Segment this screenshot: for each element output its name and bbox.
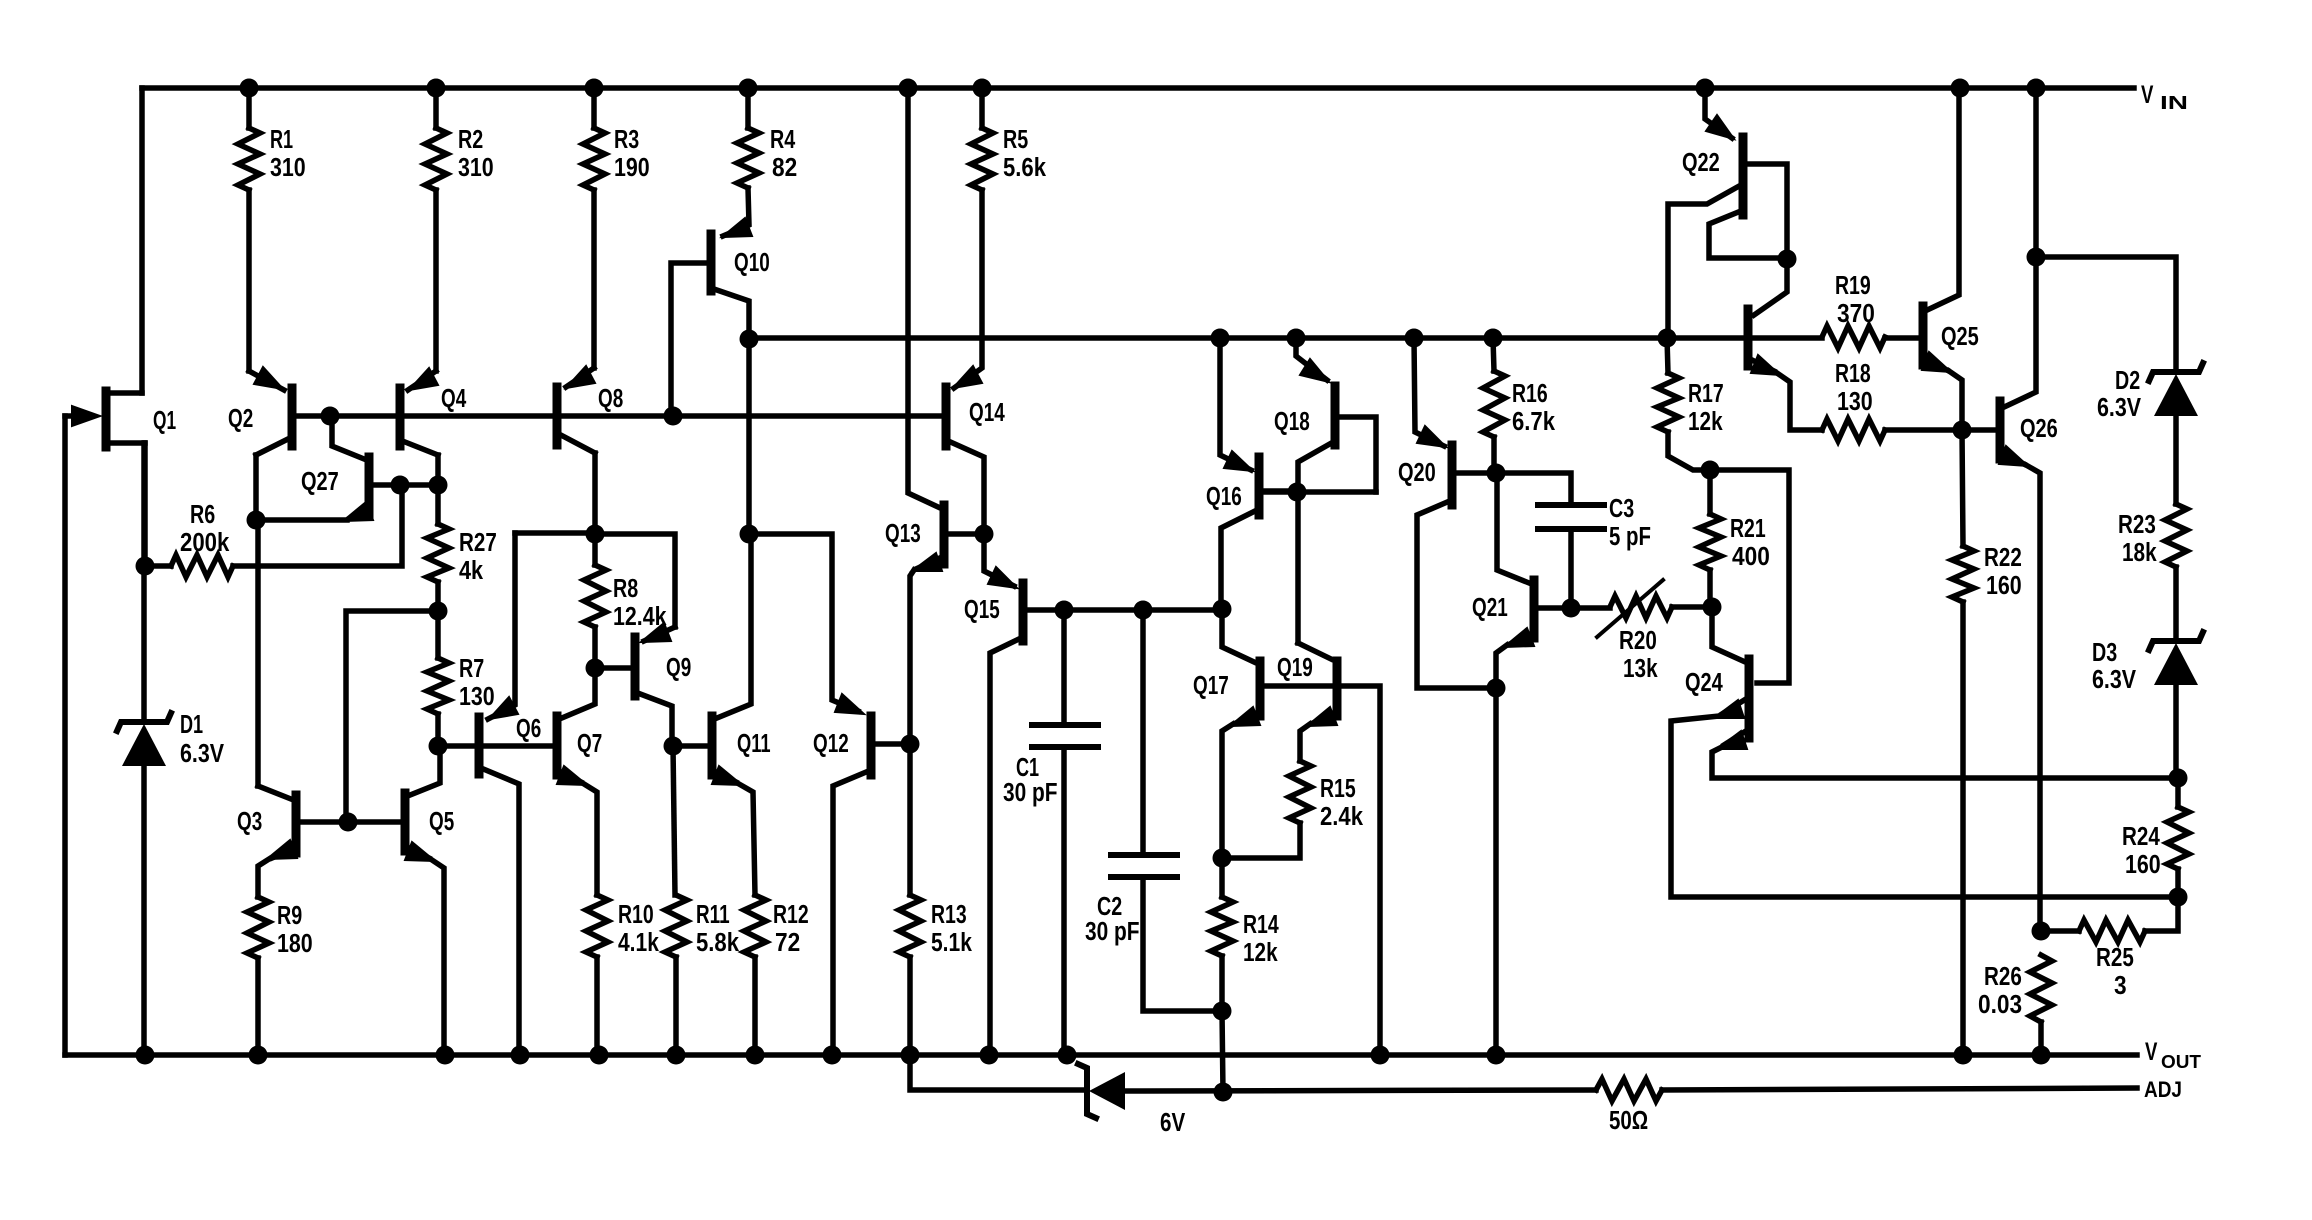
wire R27 node to Q3-Q5 base	[346, 611, 438, 822]
svg-text:Q2: Q2	[228, 405, 253, 433]
resistor R14 12k	[1211, 897, 1233, 956]
node Q10 emitter junction	[740, 330, 759, 349]
transistor Q4	[396, 388, 405, 446]
svg-text:130: 130	[1837, 388, 1873, 416]
transistor Q20	[1448, 445, 1457, 505]
node Q2-Q27-Q3 junction	[247, 511, 266, 530]
transistor Q2	[288, 388, 297, 446]
wire Q3 collector up	[255, 522, 261, 786]
svg-text:V: V	[2141, 81, 2154, 109]
wire R20 left lead	[1571, 605, 1610, 611]
svg-text:Q4: Q4	[441, 385, 467, 413]
svg-text:R3: R3	[614, 126, 639, 154]
wire R3 to Q8 emitter	[591, 190, 597, 368]
wire VIN rail left drop to Q1 drain	[139, 88, 145, 393]
resistor R6 200k	[171, 555, 233, 577]
resistor R13 5.1k	[899, 895, 921, 957]
resistor R23 18k	[2165, 504, 2187, 567]
node D2 branch junction	[2027, 248, 2046, 267]
node C2 bottom junction	[1213, 1002, 1232, 1021]
svg-text:ADJ: ADJ	[2144, 1077, 2182, 1102]
capacitor C3 5pF	[1538, 502, 1604, 508]
svg-text:Q5: Q5	[429, 808, 454, 836]
svg-text:C1: C1	[1016, 754, 1039, 782]
transistor Q13	[940, 505, 949, 564]
wire VIN top rail	[142, 85, 2134, 91]
transistor Q16	[1255, 457, 1264, 515]
svg-text:3: 3	[2114, 972, 2127, 1000]
transistor Q18	[1331, 386, 1340, 445]
node base rail dot B	[664, 407, 683, 426]
wire R20 slash	[1597, 580, 1663, 637]
svg-text:C3: C3	[1609, 495, 1634, 523]
resistor R20 13k	[1610, 596, 1672, 618]
transistor Q23	[1744, 309, 1753, 366]
svg-text:Q11: Q11	[737, 730, 771, 758]
svg-text:R20: R20	[1619, 627, 1657, 655]
svg-text:Q20: Q20	[1398, 459, 1436, 487]
svg-text:D2: D2	[2115, 367, 2140, 395]
svg-text:Q13: Q13	[885, 520, 921, 548]
transistor Q3	[292, 795, 301, 853]
svg-text:R17: R17	[1688, 380, 1724, 408]
svg-text:Q14: Q14	[969, 399, 1005, 427]
svg-text:R21: R21	[1730, 515, 1766, 543]
node Q21 emitter junction	[1487, 679, 1506, 698]
svg-text:5.8k: 5.8k	[696, 929, 740, 957]
svg-text:IN: IN	[2160, 93, 2188, 113]
node R21 top junction	[1701, 461, 1720, 480]
svg-text:OUT: OUT	[2161, 1052, 2201, 1072]
svg-text:5.1k: 5.1k	[931, 929, 973, 957]
resistor R24 160	[2167, 807, 2189, 869]
svg-text:R9: R9	[277, 902, 302, 930]
wire Q11 base line	[673, 743, 708, 749]
resistor R2	[433, 88, 439, 128]
svg-text:18k: 18k	[2122, 539, 2157, 567]
svg-text:180: 180	[277, 930, 313, 958]
svg-text:310: 310	[270, 154, 306, 182]
svg-text:Q1: Q1	[153, 407, 176, 435]
svg-text:370: 370	[1837, 300, 1875, 328]
node R24 bottom junction	[2169, 888, 2188, 907]
wire node to ADJ	[1222, 1011, 1223, 1092]
svg-text:Q9: Q9	[666, 654, 691, 682]
wire Q19 collector up	[1295, 492, 1301, 643]
svg-text:Q25: Q25	[1941, 323, 1979, 351]
resistor R22 160	[1952, 546, 1974, 602]
transistor Q12	[867, 716, 876, 775]
wire R17 bottom jog	[1668, 432, 1710, 470]
wire Q13 collector from VIN	[908, 88, 938, 507]
wire x749 down from Q10 node	[746, 339, 752, 534]
node R6 left junction	[136, 557, 155, 576]
svg-text:R1: R1	[270, 126, 293, 154]
resistor R11 5.8k	[665, 895, 687, 957]
node R26 top junction	[2032, 922, 2051, 941]
resistor R9 180	[247, 897, 269, 958]
svg-text:R15: R15	[1320, 775, 1356, 803]
svg-text:R24: R24	[2122, 823, 2160, 851]
node Q27 base dot2	[429, 476, 448, 495]
resistor R3	[591, 88, 597, 128]
svg-text:Q3: Q3	[237, 808, 262, 836]
resistor R26 0.03	[2030, 955, 2052, 1022]
wire Q3-Q5 base line	[300, 819, 401, 825]
svg-text:310: 310	[458, 154, 494, 182]
node Q27 base dot1	[391, 476, 410, 495]
svg-text:Q7: Q7	[577, 730, 602, 758]
wire D2 to R23	[2173, 417, 2179, 504]
svg-text:6V: 6V	[1160, 1109, 1185, 1137]
svg-text:Q19: Q19	[1277, 654, 1313, 682]
svg-text:R8: R8	[613, 575, 638, 603]
svg-text:Q15: Q15	[964, 596, 1000, 624]
svg-text:R16: R16	[1512, 380, 1548, 408]
capacitor C1 30pF	[1061, 610, 1067, 725]
diode D3 zener 6.3V	[2149, 632, 2203, 650]
wire R18 right lead	[1885, 427, 1960, 433]
svg-text:6.3V: 6.3V	[180, 740, 224, 768]
node Q16 collector junction	[1213, 600, 1232, 619]
svg-text:2.4k: 2.4k	[1320, 803, 1364, 831]
wire ADJ line left of zener	[910, 1055, 1084, 1090]
svg-text:400: 400	[1732, 543, 1770, 571]
node rail y338 dots	[1211, 329, 1230, 348]
svg-text:160: 160	[2125, 851, 2161, 879]
resistor R16 6.7k	[1483, 371, 1505, 437]
svg-text:6.3V: 6.3V	[2097, 394, 2141, 422]
svg-text:Q17: Q17	[1193, 672, 1229, 700]
transistor Q11	[708, 716, 717, 775]
node ADJ junction dot	[1214, 1083, 1233, 1102]
transistor Q17	[1256, 661, 1265, 716]
transistor Q14	[942, 387, 951, 446]
node Q25 emitter junction	[1953, 421, 1972, 440]
resistor R1	[246, 88, 252, 128]
svg-text:Q18: Q18	[1274, 408, 1310, 436]
resistor R7 130	[427, 658, 449, 714]
svg-text:R25: R25	[2096, 944, 2134, 972]
transistor Q10	[707, 234, 716, 291]
wire R24 to R25	[2145, 897, 2178, 931]
resistor R10 4.1k	[586, 895, 608, 957]
transistor Q5	[401, 793, 410, 851]
wire Q6-Q7 base line	[438, 743, 553, 749]
svg-text:R18: R18	[1835, 360, 1871, 388]
svg-text:Q27: Q27	[301, 468, 339, 496]
resistor R25 3	[2079, 920, 2145, 942]
svg-text:6.7k: 6.7k	[1512, 408, 1556, 436]
wire Q21 emitter to VOUT	[1493, 688, 1499, 1055]
resistor R8 12.4k	[584, 565, 606, 627]
resistor R19 370	[1822, 326, 1885, 348]
svg-text:50Ω: 50Ω	[1609, 1107, 1648, 1135]
transistor Q6	[475, 717, 484, 774]
wire Q20 base to C3	[1496, 473, 1571, 505]
svg-text:30 pF: 30 pF	[1003, 779, 1058, 807]
transistor Q22	[1739, 137, 1748, 215]
wire R1 to Q2 emitter	[246, 190, 252, 371]
wire Q17-Q19 base line	[1264, 686, 1380, 1055]
wire R5 to Q14 emitter	[954, 190, 982, 388]
svg-text:Q21: Q21	[1472, 594, 1508, 622]
svg-text:Q8: Q8	[598, 385, 623, 413]
wire ADJ line right	[1662, 1088, 2137, 1090]
node C3 bottom junction	[1562, 599, 1581, 618]
svg-text:R14: R14	[1243, 911, 1279, 939]
svg-text:R10: R10	[618, 901, 654, 929]
svg-text:82: 82	[772, 154, 797, 182]
svg-text:D3: D3	[2092, 639, 2117, 667]
transistor Q7	[553, 716, 562, 775]
resistor R15 2.4k	[1289, 761, 1311, 823]
svg-text:R12: R12	[773, 901, 809, 929]
wire Q1 source down	[142, 443, 148, 566]
svg-text:R13: R13	[931, 901, 967, 929]
wire Q4 collector to R27	[435, 455, 441, 485]
svg-text:Q24: Q24	[1685, 669, 1723, 697]
wire long rail y338	[749, 335, 1822, 341]
wire R4 to Q10 emitter	[723, 188, 749, 236]
svg-text:R11: R11	[696, 901, 730, 929]
wire R20 right lead	[1672, 604, 1710, 610]
transistor Q26	[1996, 401, 2005, 459]
transistor Q24	[1745, 659, 1754, 738]
resistor R17 12k	[1657, 373, 1679, 432]
wire Q8 collector down	[592, 453, 598, 534]
resistor R12 72	[744, 895, 766, 957]
node Q15 base dots	[1055, 601, 1074, 620]
wire R25 left lead	[2041, 928, 2079, 934]
svg-text:4.1k: 4.1k	[618, 929, 660, 957]
node Q18 junction	[1288, 483, 1307, 502]
diode D2 zener 6.3V	[2149, 363, 2203, 381]
resistor R27 4k	[427, 524, 449, 582]
diode D1 zener	[117, 713, 171, 731]
transistor Q8	[553, 387, 562, 445]
svg-text:12k: 12k	[1243, 939, 1278, 967]
wire R6 left lead	[145, 563, 171, 569]
node R7 bottom junction	[429, 737, 448, 756]
svg-text:72: 72	[775, 929, 800, 957]
svg-text:4k: 4k	[459, 557, 484, 585]
transistor Q19	[1333, 661, 1342, 716]
node R27 bottom junction	[429, 602, 448, 621]
svg-text:R19: R19	[1835, 272, 1871, 300]
node R14 top junction	[1213, 849, 1232, 868]
node Q12 base junction	[901, 735, 920, 754]
node VOUT rail junction dots	[136, 1046, 155, 1065]
wire Q1 gate feedback left vertical	[62, 416, 68, 1055]
svg-text:130: 130	[459, 683, 495, 711]
svg-text:Q12: Q12	[813, 730, 849, 758]
wire base rail Q2-Q4-Q8-Q14	[294, 413, 942, 419]
wire ADJ line middle	[1127, 1090, 1596, 1091]
svg-text:13k: 13k	[1623, 655, 1658, 683]
svg-text:Q6: Q6	[516, 715, 541, 743]
svg-text:R2: R2	[458, 126, 483, 154]
capacitor C2 30pF	[1140, 610, 1146, 855]
transistor Q15	[1019, 583, 1028, 641]
svg-text:R27: R27	[459, 529, 497, 557]
node Q3-Q5 base dot	[339, 813, 358, 832]
svg-text:Q16: Q16	[1206, 483, 1242, 511]
wire D3 to node	[2173, 686, 2179, 778]
svg-text:30 pF: 30 pF	[1085, 918, 1140, 946]
svg-text:190: 190	[614, 154, 650, 182]
svg-text:5 pF: 5 pF	[1609, 523, 1651, 551]
svg-text:R5: R5	[1003, 126, 1028, 154]
node x749 junction y534	[740, 525, 759, 544]
transistor Q27	[365, 457, 374, 515]
wire R6 to Q27 base node	[233, 485, 402, 566]
transistor Q1	[102, 391, 111, 447]
svg-text:C2: C2	[1097, 893, 1122, 921]
svg-text:6.3V: 6.3V	[2092, 666, 2136, 694]
wire R2 to Q4 emitter	[433, 190, 439, 371]
node R8 bottom junction	[586, 659, 605, 678]
wire node to Q24 base	[1710, 470, 1789, 683]
zener 6V on ADJ line	[1078, 1064, 1096, 1118]
node VIN rail junction dots	[240, 79, 259, 98]
svg-text:5.6k: 5.6k	[1003, 154, 1047, 182]
wire rail y338 right of R19	[1885, 335, 1919, 341]
node Q22 collector junction	[1778, 250, 1797, 269]
wire Q16-Q18 base line	[1264, 489, 1376, 495]
transistor Q21	[1530, 580, 1539, 638]
transistor Q25	[1919, 306, 1928, 365]
wire horizontal y533	[515, 530, 595, 536]
wire Q2 collector down to node	[253, 455, 259, 520]
svg-text:Q26: Q26	[2020, 415, 2058, 443]
node Q14 collector junction	[975, 525, 994, 544]
transistor Q9	[631, 637, 640, 696]
node R8 top junction	[586, 525, 605, 544]
svg-text:R6: R6	[190, 501, 215, 529]
resistor 50ohm on ADJ line	[1596, 1079, 1662, 1101]
wire R23 to D3	[2173, 567, 2179, 641]
node Q9 collector junction	[664, 737, 683, 756]
resistor R18 130	[1822, 419, 1885, 441]
resistor R21 400	[1699, 514, 1721, 570]
node base rail dot A	[321, 407, 340, 426]
svg-text:R23: R23	[2118, 511, 2156, 539]
svg-text:0.03: 0.03	[1978, 991, 2022, 1019]
wire node749 to Q12 emitter	[749, 534, 858, 711]
svg-text:160: 160	[1986, 572, 2022, 600]
svg-text:12k: 12k	[1688, 408, 1723, 436]
wire VIN to D2	[2036, 257, 2176, 372]
svg-text:V: V	[2145, 1038, 2158, 1066]
svg-text:200k: 200k	[180, 529, 230, 557]
svg-text:R26: R26	[1984, 963, 2022, 991]
node R24 top junction	[2169, 769, 2188, 788]
node Q20 base junction	[1487, 464, 1506, 483]
resistor R5	[979, 88, 985, 128]
svg-text:Q10: Q10	[734, 249, 770, 277]
resistor R4	[745, 88, 751, 128]
svg-text:R22: R22	[1984, 544, 2022, 572]
svg-text:R7: R7	[459, 655, 484, 683]
svg-text:D1: D1	[180, 711, 203, 739]
svg-text:Q22: Q22	[1682, 149, 1720, 177]
svg-text:R4: R4	[770, 126, 796, 154]
node R20 right junction	[1703, 598, 1722, 617]
wire VOUT bottom rail	[65, 1052, 2137, 1058]
